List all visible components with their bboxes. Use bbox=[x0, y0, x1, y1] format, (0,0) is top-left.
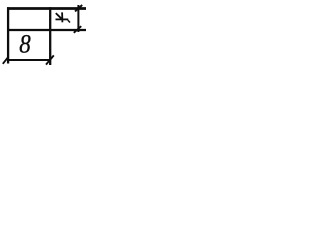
svg-text:8: 8 bbox=[19, 30, 30, 59]
